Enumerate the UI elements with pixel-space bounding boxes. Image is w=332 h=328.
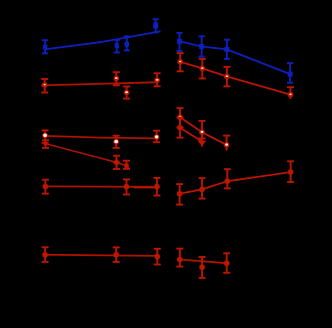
error bar R4 p1 — [176, 249, 183, 267]
marker circle R1r p2 — [199, 66, 205, 72]
error bar R1b p4 — [287, 63, 293, 83]
marker triangle-down R2b p2 (upper limit) — [197, 137, 206, 147]
error bar R1b p1 — [176, 33, 182, 51]
error bar L3b p2 — [113, 156, 120, 169]
marker circle L3a p2 — [113, 139, 119, 145]
marker circle L4 p3 — [154, 184, 160, 190]
error bar R3 p2 — [199, 178, 206, 199]
error bar L4 p3 — [153, 178, 160, 196]
error bar R2b p1 — [177, 118, 184, 138]
line R4 fit — [180, 260, 227, 264]
line L5 fit — [43, 255, 157, 256]
error bar L2 p3 — [123, 87, 130, 99]
error bar L3b p3 — [123, 161, 130, 169]
marker circle R2b p1 — [177, 125, 183, 131]
error bar L5 p2 — [113, 247, 120, 262]
marker circle R3 p1 — [177, 191, 183, 197]
error bar R1b p3 — [224, 40, 230, 59]
error bar L5 p1 — [42, 247, 49, 262]
error bar R2a p3 — [223, 136, 230, 151]
line L4 extra overlap segment — [133, 187, 154, 189]
marker circle L3a p3 — [154, 134, 160, 140]
marker circle R2a p2 — [199, 129, 205, 135]
marker circle R2a p3 — [224, 142, 230, 148]
error bar R1r p2 — [199, 59, 206, 79]
error bar L1 p3 — [124, 36, 130, 50]
error bar R3 p4 — [287, 161, 294, 182]
error bar R3 p3 — [224, 169, 231, 188]
line L3 descending — [46, 144, 127, 166]
error bar L4 p1 — [42, 180, 49, 194]
marker diamond L3b p2 — [113, 159, 121, 167]
marker square R1b p4 — [288, 72, 293, 77]
marker circle R2a p1 — [177, 114, 183, 120]
marker square L1 p3 — [125, 42, 129, 47]
marker circle R4 p1 — [177, 257, 183, 263]
error bar R4 p3 — [223, 253, 230, 272]
marker circle R4 p2 — [199, 264, 205, 270]
marker circle L4 p2 — [124, 184, 130, 190]
marker circle R3 p2 — [199, 187, 205, 193]
marker square L3b p3 — [124, 164, 128, 168]
error bar R1r p1 — [177, 53, 184, 71]
line L2 red fit — [41, 82, 156, 85]
marker circle R1r p3 — [224, 74, 230, 80]
marker circle L3a p1 — [42, 133, 48, 139]
error bar L1 p1 — [42, 40, 48, 53]
line R1 blue — [180, 41, 291, 74]
error bar R2a p1 — [177, 108, 184, 127]
marker circle L5 p3 — [154, 254, 160, 260]
error bar R2a p2 — [199, 121, 206, 139]
line R1 red — [180, 62, 290, 95]
marker square L1 p1 — [43, 45, 47, 50]
error bar L3a p1 — [42, 130, 49, 143]
error bar L1 p4 — [153, 19, 159, 32]
error bar L4 p2 — [123, 179, 130, 194]
line R2 lower — [180, 128, 202, 142]
error bar L3a p3 — [153, 131, 160, 143]
line L3 flat — [44, 136, 157, 139]
marker square L1 p2 — [115, 43, 119, 48]
marker circle L5 p2 — [113, 252, 119, 258]
error bar L3b p1 — [42, 140, 49, 148]
marker circle R3 p3 — [224, 178, 230, 184]
line R2 upper — [180, 117, 227, 145]
marker circle L2 p3 — [124, 90, 130, 96]
error bar R4 p2 — [199, 257, 206, 278]
marker square L1 p4 — [153, 22, 158, 28]
marker square R1b p2 — [199, 44, 204, 49]
line L4 fit — [43, 185, 160, 188]
error bar L2 p2 — [113, 72, 120, 85]
error bar L2 p1 — [41, 79, 48, 93]
marker circle R1r p1 — [177, 59, 183, 65]
error bar L1 p2 — [114, 40, 120, 53]
error bar L5 p3 — [154, 249, 161, 265]
error bar R1b p2 — [199, 36, 205, 56]
marker square L3b p1 — [44, 142, 48, 146]
marker circle R1r p4 — [288, 92, 294, 98]
marker square R1b p1 — [177, 39, 182, 44]
error bar L3a p2 — [113, 136, 120, 148]
line L1 blue fit — [45, 31, 161, 49]
marker square R1b p3 — [224, 47, 229, 52]
error bar R1r p3 — [223, 67, 230, 87]
marker circle L2 p2 — [113, 76, 119, 82]
marker circle L2 p1 — [42, 82, 48, 88]
line R3 — [180, 172, 291, 194]
marker circle L5 p1 — [42, 252, 48, 258]
error bar R1r p4 — [287, 87, 294, 99]
marker circle L4 p1 — [43, 184, 49, 190]
error bar L2 p4 — [154, 73, 161, 86]
marker circle R3 p4 — [288, 169, 294, 175]
error bar R3 p1 — [176, 184, 183, 205]
marker circle L2 p4 — [154, 77, 160, 83]
marker circle R4 p3 — [224, 260, 230, 266]
